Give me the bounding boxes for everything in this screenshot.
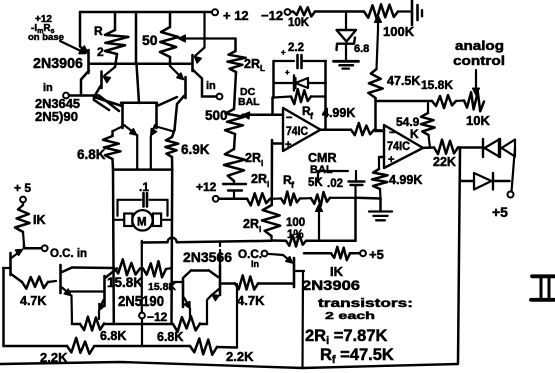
wire mirror top (121, 102, 157, 105)
svg-text:+: + (285, 139, 291, 151)
label 54.9K (396, 115, 420, 141)
wire QM2L emitter (98, 311, 100, 320)
transistor QM1 (61, 265, 73, 296)
label 500 (205, 108, 228, 123)
resistor 47.5K (368, 69, 382, 98)
transistor QOC 2N3906 (283, 255, 304, 287)
wire U1 minus input (243, 113, 284, 116)
svg-text:L: L (260, 64, 265, 73)
svg-text:74IC: 74IC (286, 126, 308, 138)
resistor 4.99K b (372, 157, 388, 199)
svg-text:+: + (281, 48, 286, 57)
svg-text:4.7K: 4.7K (20, 294, 46, 308)
resistor 22K (434, 140, 458, 155)
label transistors (318, 298, 413, 310)
transistor Q2 inner left (94, 67, 115, 100)
label 4.7K right (237, 293, 265, 308)
label 2Ri upper (245, 151, 263, 168)
label 100K (383, 24, 415, 39)
label 2N3906 (33, 56, 83, 72)
capacitor 2.2 feedback (274, 55, 327, 68)
wiper 100K (375, 16, 382, 31)
label 6.8K bottom left (100, 329, 126, 343)
svg-text:22K: 22K (433, 155, 456, 169)
wire center column (136, 12, 139, 103)
label Rf series (283, 173, 295, 190)
wire bottom rail (0, 362, 458, 368)
label in left (43, 82, 53, 94)
wire feedback right (324, 61, 327, 130)
svg-text:in: in (206, 80, 216, 92)
battery symbol +12 bias (223, 181, 246, 199)
wire QM1 collector (72, 266, 114, 269)
svg-text:−12: −12 (261, 8, 283, 23)
label -12 top (261, 8, 283, 23)
svg-text:i: i (259, 225, 261, 234)
label R/2 (94, 24, 104, 59)
resistor Rf feedback (274, 89, 326, 104)
label +12 top (223, 8, 249, 23)
transistor Q1 2N3906 left outer (80, 46, 89, 96)
svg-text:5K: 5K (308, 177, 323, 189)
label 2RL (244, 57, 265, 73)
label U2 plus (388, 154, 394, 166)
svg-text:+12: +12 (196, 180, 217, 194)
ground right (369, 212, 392, 221)
transistor Q4 right outer (193, 12, 205, 97)
resistor 15.8K bottom left (114, 259, 140, 275)
svg-text:4.99K: 4.99K (322, 106, 355, 120)
label .1 cap (139, 180, 149, 194)
svg-text:2.2: 2.2 (288, 42, 304, 54)
resistor 15.8K bottom right (143, 261, 172, 277)
resistor 2.2K bottom left (67, 338, 94, 354)
svg-text:6.8K: 6.8K (157, 330, 183, 344)
svg-text:2R: 2R (245, 151, 261, 165)
wiper analog control (473, 70, 480, 95)
resistor 2RL (227, 51, 245, 72)
svg-text:2 each: 2 each (325, 310, 375, 322)
wire feedback left (272, 61, 275, 98)
svg-text:.02: .02 (327, 178, 343, 190)
svg-text:−: − (286, 112, 292, 124)
label +5 left (14, 181, 31, 195)
potentiometer 100K (364, 4, 398, 19)
wire 5K jumper (318, 171, 348, 181)
label 15.8K big (107, 275, 143, 290)
annotation arrow to base (60, 41, 86, 54)
label 15.8K small (148, 281, 176, 293)
terminal +12 top (212, 9, 218, 15)
wire 2.2K to riser (217, 284, 237, 348)
wire U2 out (423, 146, 434, 149)
wire wiper to 2RL (234, 39, 237, 52)
svg-text:M: M (137, 217, 147, 229)
resistor 1K left (15, 202, 30, 245)
wire in-left diagonal (99, 96, 119, 112)
terminal in left (63, 93, 69, 99)
wire OC in left (24, 245, 42, 248)
svg-text:2: 2 (97, 45, 104, 59)
capacitor .02 (349, 171, 365, 199)
label 2N3906 bottom (302, 277, 360, 293)
svg-text:+ 5: + 5 (14, 181, 31, 195)
label 6.9K right (181, 142, 210, 157)
potentiometer 5K CMR (311, 192, 357, 206)
transistor QL bottom left (3, 250, 23, 283)
svg-text:+: + (285, 68, 290, 77)
svg-text:+ 12: + 12 (223, 8, 249, 23)
transistor Q5 inner right (170, 66, 186, 130)
transistor QM2L (99, 269, 117, 311)
svg-text:100K: 100K (383, 24, 415, 39)
svg-text:2N3566: 2N3566 (183, 249, 232, 265)
node summing vertical (271, 98, 274, 206)
svg-text:6.8: 6.8 (354, 43, 369, 55)
svg-text:6.8K: 6.8K (77, 147, 106, 162)
svg-text:2R: 2R (251, 172, 267, 186)
resistor 100 1pct (286, 235, 306, 247)
svg-text:1%: 1% (287, 229, 304, 241)
label 2Ri horizontal (0, 0, 1, 1)
ground zener (334, 61, 359, 68)
op-amp U2 741C (384, 125, 423, 168)
label 10K top (288, 17, 310, 29)
resistor 2Ri vertical (224, 149, 245, 181)
wire 3566 row (142, 241, 272, 243)
wire QM2R emitter (189, 309, 191, 320)
wire 2RL to pot (234, 72, 236, 109)
wire -12 drop (141, 268, 143, 346)
label 50 (142, 32, 158, 48)
transistor Q3566 (209, 242, 220, 300)
svg-text:15.8K: 15.8K (421, 78, 453, 92)
label Rf formula (320, 346, 394, 366)
resistor 6.9K right (165, 130, 178, 170)
resistor 4.7K bottom left (22, 277, 56, 289)
svg-text:IK: IK (33, 213, 46, 227)
label +12 mid (196, 180, 217, 194)
label 6.8K bottom right (157, 330, 183, 344)
annotation +ImRs on base (28, 14, 64, 43)
svg-text:4.99K: 4.99K (389, 173, 422, 187)
resistor 6.8K bottom left (80, 317, 104, 331)
wire base rail (90, 63, 192, 66)
svg-text:−12: −12 (147, 310, 168, 324)
wire QM1 emitter (70, 296, 73, 325)
label in right (206, 80, 216, 92)
transistor Q7 mirror right (151, 97, 177, 136)
resistor 6.8K bottom right (173, 316, 200, 332)
wiper arrow DC BAL (243, 112, 273, 119)
label +5 right (492, 204, 508, 220)
resistor R/2 (105, 12, 128, 67)
label 1K left (33, 213, 46, 227)
svg-text:10K: 10K (288, 17, 310, 29)
label 4.99K b (389, 173, 422, 187)
wire mirror bus (113, 168, 172, 171)
svg-text:Rf =47.5K: Rf =47.5K (320, 346, 394, 366)
label U1 plus (285, 139, 291, 151)
resistor 15.8K right (432, 95, 456, 108)
label 6.8 zener (354, 43, 369, 55)
wire 22K node (458, 146, 482, 149)
svg-text:i: i (267, 180, 269, 189)
svg-text:2R: 2R (243, 217, 259, 231)
resistor 2Ri input vertical (262, 205, 280, 241)
label 100 1pct (286, 217, 305, 241)
terminal +5 left (20, 197, 26, 203)
svg-text:6.9K: 6.9K (181, 142, 210, 157)
wire 15.8K row (376, 100, 433, 103)
svg-text:transistors:: transistors: (318, 298, 413, 310)
label U2 741C (387, 141, 410, 153)
terminal +12 mid (213, 196, 219, 202)
label +5 mid (369, 247, 384, 262)
svg-text:+5: +5 (492, 204, 508, 220)
wire in left (69, 94, 99, 97)
svg-text:47.5K: 47.5K (387, 74, 420, 88)
label 6.8K left (77, 147, 106, 162)
label 2.2 (281, 42, 304, 57)
terminal +5 right (508, 192, 514, 198)
svg-text:+5: +5 (369, 247, 384, 262)
label feedback diode plus (285, 68, 290, 77)
svg-text:i: i (261, 159, 263, 168)
wire 3566 row drop (141, 241, 143, 268)
svg-text:BAL: BAL (238, 96, 260, 108)
wire Q3566 emitter (207, 295, 212, 325)
svg-text:2N3906: 2N3906 (302, 277, 360, 293)
label 47.5K (387, 74, 420, 88)
resistor 10K top (290, 7, 364, 17)
resistor 2Ri horizontal (247, 193, 270, 205)
terminal +5 mid (360, 250, 366, 256)
resistor 6.8K left (103, 131, 121, 170)
wire OC right lead (267, 254, 283, 255)
wire QM2R collector to Q3566 (191, 269, 209, 272)
svg-text:control: control (453, 54, 505, 68)
wire mirror emitters (137, 135, 151, 170)
label 2N3645 (35, 96, 80, 111)
resistor Rf series (272, 192, 312, 206)
label 2 each (325, 310, 375, 322)
svg-text:2N5)90: 2N5)90 (35, 109, 78, 124)
label 15.8K right (421, 78, 453, 92)
label U1 minus (286, 112, 292, 124)
svg-text:CMR: CMR (308, 151, 336, 165)
wire QM2L base (70, 290, 103, 292)
wire 2.2K row (4, 345, 191, 348)
label analog control (453, 39, 505, 68)
svg-text:2R: 2R (244, 57, 260, 71)
potentiometer 50 (160, 12, 178, 66)
wire left edge (2, 268, 5, 346)
svg-text:R: R (94, 24, 103, 38)
svg-text:analog: analog (455, 39, 504, 53)
svg-text:10K: 10K (466, 113, 490, 128)
svg-text:74IC: 74IC (387, 141, 410, 153)
diode D1 (483, 139, 499, 157)
svg-text:O.C. in: O.C. in (50, 248, 87, 260)
wire diode corner (512, 148, 516, 192)
svg-text:100: 100 (286, 217, 305, 229)
wire U1 out (321, 128, 352, 131)
wire 6.8K row (72, 323, 207, 326)
wire wiper box (272, 239, 287, 242)
label 4.7K left (20, 294, 46, 308)
label DC BAL (238, 86, 260, 108)
svg-text:in: in (43, 82, 53, 94)
svg-text:−: − (389, 127, 395, 139)
motor M (113, 210, 172, 230)
label 2Ri formula (305, 327, 387, 347)
wire motor right column (170, 170, 173, 324)
label 10K pot (466, 113, 490, 128)
svg-text:2N3906: 2N3906 (33, 56, 83, 72)
wire to U2 minus (374, 129, 384, 132)
svg-text:on base: on base (28, 32, 64, 43)
resistor 54.9K feedback (421, 103, 435, 148)
diode D3 (474, 173, 510, 190)
diode feedback (274, 76, 327, 91)
label Rf feedback (302, 104, 314, 121)
terminal OC in right (262, 251, 268, 257)
label -12 bottom (147, 310, 168, 324)
transistor Q6 mirror left (94, 97, 137, 135)
label U1 741C (286, 126, 308, 138)
wire lower diode branch (460, 148, 474, 182)
wire 100K wiper down (377, 30, 379, 69)
svg-text:50: 50 (142, 32, 158, 48)
wire in right (202, 95, 217, 98)
label 2Ri lower (251, 172, 269, 189)
label 2Ri input (243, 217, 261, 234)
wire QOC collector (301, 271, 304, 368)
terminal -12 bottom (139, 313, 145, 319)
wire Q2 collector to mirror (94, 100, 109, 110)
wire box right (306, 199, 356, 241)
wiper arrow 50 pot (179, 35, 236, 42)
resistor 2.2K bottom right (190, 338, 217, 354)
wire U2 plus lead (379, 156, 384, 159)
label 2N5190 upper (35, 109, 78, 124)
svg-text:4.7K: 4.7K (237, 293, 265, 308)
potentiometer 500 DC BAL (225, 109, 244, 134)
wire +12 top rail (80, 11, 211, 14)
terminal in right (217, 94, 223, 100)
resistor 4.99K a (351, 123, 374, 135)
svg-text:in: in (251, 259, 259, 269)
label 2N3566 (183, 249, 232, 265)
label 5K (308, 177, 343, 190)
svg-text:K: K (410, 127, 419, 141)
potentiometer 10K analog (456, 92, 484, 111)
wire pot to 2Ri (234, 134, 235, 149)
resistor 4.7K bottom right (235, 275, 258, 289)
wire motor left column (112, 170, 115, 324)
label U2 minus (389, 127, 395, 139)
diode D1 tri (485, 140, 500, 157)
label 1K right (330, 264, 344, 279)
resistor 1K right (331, 247, 350, 260)
op-amp U1 741C (283, 108, 321, 151)
label CMR BAL (308, 151, 336, 176)
terminal OC in left (42, 245, 48, 251)
label OC in right (238, 249, 262, 269)
diode D2 tri (502, 140, 516, 157)
label II figure number (531, 276, 555, 300)
label 22K (433, 155, 456, 169)
zener diode 6.8 (337, 12, 357, 61)
wire opamp1 plus lead (273, 142, 284, 145)
label 2.2K left (40, 350, 68, 365)
label 2N5190 lower (118, 294, 164, 310)
capacitor top right (398, 0, 422, 25)
svg-text:6.8K: 6.8K (100, 329, 126, 343)
wire 47.5K down (376, 98, 385, 131)
wire 1K row (304, 252, 331, 255)
transistor QM2R (172, 271, 191, 309)
wire hop over column (168, 238, 177, 243)
wiper CMR BAL (316, 205, 323, 241)
wire +12 row (219, 198, 247, 201)
wire 1K to +5 (350, 252, 360, 255)
terminal -12 top (285, 9, 291, 15)
wire 4.7K right row (221, 282, 293, 285)
svg-text:2.2K: 2.2K (226, 349, 254, 364)
wire output down (458, 148, 460, 364)
diode D2 bar (499, 139, 501, 157)
wire Q1 emitter drop (79, 12, 82, 47)
label OC in left (50, 248, 87, 260)
svg-text:2Ri =7.87K: 2Ri =7.87K (305, 327, 387, 347)
wire cmr to gnd2 (357, 198, 381, 211)
capacitor .1 (118, 193, 168, 216)
svg-text:+: + (388, 154, 394, 166)
svg-text:500: 500 (205, 108, 228, 123)
label 4.99K a (322, 106, 355, 120)
label 2.2K right (226, 349, 254, 364)
